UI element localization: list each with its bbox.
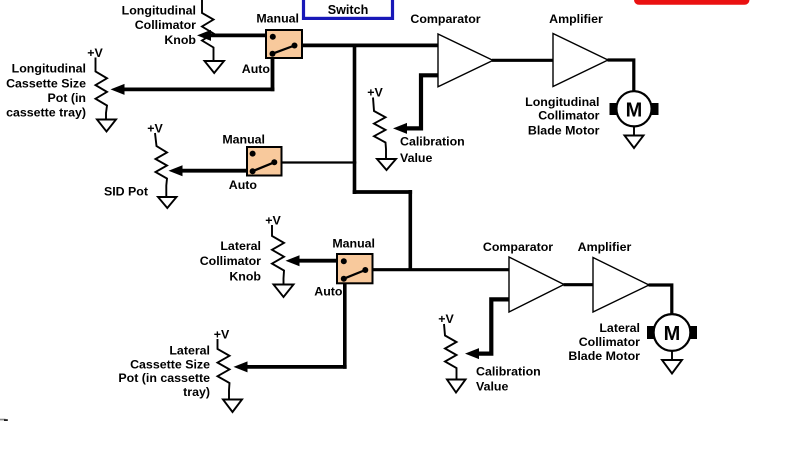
- label: Longitudinal Collimator Knob: [122, 3, 197, 46]
- svg-text:Amplifier: Amplifier: [549, 12, 603, 26]
- ground under M2: [662, 351, 682, 374]
- svg-text:Collimator: Collimator: [135, 18, 196, 32]
- wire: S1 Auto input from R2 wiper: [111, 57, 275, 95]
- ground under R1: [205, 61, 225, 73]
- svg-text:Cassette Size: Cassette Size: [130, 358, 210, 372]
- svg-text:Comparator: Comparator: [410, 12, 480, 26]
- potentiometer R7 Calibration Value (bottom): [444, 324, 457, 380]
- svg-text:Value: Value: [476, 380, 508, 394]
- svg-text:+V: +V: [438, 312, 454, 326]
- ground under R5: [274, 285, 294, 298]
- potentiometer R1 Longitudinal Collimator Knob: [202, 0, 214, 61]
- svg-text:SID Pot: SID Pot: [104, 185, 148, 199]
- wire: bus jog horizontal: [353, 190, 412, 194]
- wire: U4 output to motor M2: [649, 285, 672, 314]
- potentiometer R6 Lateral Cassette Size Pot: [218, 339, 230, 400]
- label: Calibration Value (bottom): [476, 365, 541, 394]
- svg-text:Comparator: Comparator: [483, 240, 553, 254]
- svg-text:Manual: Manual: [332, 237, 375, 251]
- wire: U3 output to U4: [564, 283, 594, 286]
- svg-text:Longitudinal: Longitudinal: [525, 95, 599, 109]
- svg-text:M: M: [664, 323, 681, 345]
- svg-text:Knob: Knob: [164, 33, 196, 47]
- stray mark bottom left: [0, 419, 6, 421]
- wire: S1 common to comparator U1 (net N1): [300, 44, 438, 48]
- switch S1 (Manual/Auto): [266, 30, 302, 58]
- label: Longitudinal Cassette Size Pot (in cassette tray): [6, 62, 86, 120]
- svg-text:Amplifier: Amplifier: [578, 240, 632, 254]
- wire: S3 Auto input from R6 wiper: [234, 283, 347, 372]
- svg-text:Collimator: Collimator: [579, 335, 640, 349]
- potentiometer R4 Calibration Value (top): [373, 98, 386, 160]
- comparator U3: [509, 257, 564, 312]
- switch S2 (Manual/Auto): [247, 147, 282, 176]
- svg-text:Longitudinal: Longitudinal: [12, 62, 86, 76]
- wire: bus B vertical: [408, 190, 412, 271]
- svg-text:Collimator: Collimator: [200, 254, 261, 268]
- svg-text:Manual: Manual: [256, 12, 299, 26]
- ground under R6: [223, 400, 242, 413]
- label: Calibration Value (top): [400, 135, 465, 165]
- wire: R5 wiper to S3 Manual input: [286, 255, 338, 266]
- wire: calibration R7 wiper to U3 inverting input: [465, 299, 509, 359]
- motor M2 Lateral Collimator Blade Motor: [647, 314, 697, 351]
- svg-text:Switch: Switch: [328, 3, 369, 17]
- svg-text:M: M: [626, 99, 643, 121]
- wire: R3 wiper to S2 Auto input: [169, 165, 248, 176]
- svg-text:Cassette Size: Cassette Size: [6, 76, 86, 90]
- wire: calibration R4 wiper to U1 inverting input: [393, 75, 438, 134]
- svg-text:Blade Motor: Blade Motor: [528, 124, 600, 138]
- svg-text:+V: +V: [367, 86, 383, 100]
- svg-text:cassette tray): cassette tray): [6, 106, 86, 120]
- label: Lateral Collimator Blade Motor: [568, 321, 640, 363]
- svg-text:Auto: Auto: [242, 62, 271, 76]
- switch S3 (Manual/Auto): [337, 254, 373, 283]
- svg-text:Auto: Auto: [229, 178, 258, 192]
- svg-text:+V: +V: [265, 214, 281, 228]
- svg-text:Calibration: Calibration: [400, 135, 465, 149]
- ground under R4: [377, 159, 396, 170]
- potentiometer R3 SID Pot: [155, 133, 167, 197]
- svg-text:Pot (in cassette: Pot (in cassette: [118, 371, 210, 385]
- svg-text:Value: Value: [400, 151, 432, 165]
- ground under R2: [97, 120, 116, 132]
- wire: U1 output to U2: [492, 59, 554, 62]
- svg-text:+V: +V: [214, 328, 230, 342]
- label: Lateral Collimator Knob: [200, 239, 262, 284]
- label: Lateral Cassette Size Pot (in cassette tray): [118, 344, 210, 399]
- svg-text:Pot (in: Pot (in: [47, 91, 86, 105]
- potentiometer R5 Lateral Collimator Knob: [272, 225, 284, 285]
- amplifier U2: [553, 34, 608, 87]
- svg-text:+V: +V: [87, 46, 103, 60]
- Switch title box: [304, 0, 393, 18]
- svg-text:Knob: Knob: [229, 270, 261, 284]
- wire: U2 output to motor M1: [608, 60, 634, 91]
- comparator U1: [438, 34, 493, 87]
- ground under R3: [158, 197, 177, 208]
- svg-text:Lateral: Lateral: [599, 321, 640, 335]
- wire: S3 common to comparator U3 (net N2): [372, 268, 509, 271]
- red tab (cut off at top edge): [634, 0, 750, 5]
- svg-text:Lateral: Lateral: [169, 344, 210, 358]
- svg-text:Collimator: Collimator: [538, 109, 599, 123]
- svg-text:Calibration: Calibration: [476, 365, 541, 379]
- ground under R7: [447, 380, 466, 393]
- svg-text:Auto: Auto: [314, 285, 343, 299]
- motor M1 Longitudinal Collimator Blade Motor: [610, 91, 659, 126]
- amplifier U4: [593, 258, 649, 313]
- svg-text:Longitudinal: Longitudinal: [122, 3, 196, 17]
- ground under M1: [625, 126, 644, 148]
- svg-text:Manual: Manual: [222, 133, 265, 147]
- wire: S2 common to bus A: [281, 161, 356, 163]
- label: Longitudinal Collimator Blade Motor: [525, 95, 600, 138]
- svg-text:Blade Motor: Blade Motor: [568, 349, 640, 363]
- potentiometer R2 Longitudinal Cassette Size Pot: [96, 58, 108, 120]
- svg-text:tray): tray): [183, 385, 210, 399]
- wire: bus A vertical from N1: [353, 44, 357, 195]
- svg-text:Lateral: Lateral: [220, 239, 261, 253]
- wire: R1 wiper to S1 Manual input: [197, 30, 267, 41]
- svg-text:+V: +V: [147, 122, 163, 136]
